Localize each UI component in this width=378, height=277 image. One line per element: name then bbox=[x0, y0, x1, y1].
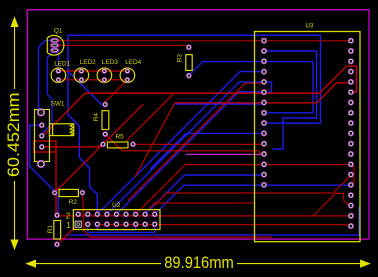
U2 pads bbox=[75, 212, 157, 228]
label R4 bbox=[93, 113, 100, 122]
IC U3 outline bbox=[255, 32, 361, 242]
wire: magenta overlapped pair horizontal bbox=[186, 153, 263, 155]
wire: red mid diagonal joining long red bbox=[127, 93, 175, 141]
wire: red from R2 right pad down through U2 along bottom bbox=[82, 193, 272, 237]
wire: red long to U3 pad19R bbox=[100, 225, 351, 227]
wire: red Q1 top pad to U3 pad1R bbox=[55, 40, 351, 42]
svg-text:SW1: SW1 bbox=[51, 100, 65, 107]
resistor R3 body bbox=[186, 55, 192, 71]
wire: red R4 bottom pad to U3 pad12L bbox=[105, 134, 264, 154]
svg-text:60.452mm: 60.452mm bbox=[5, 92, 23, 177]
svg-text:89.916mm: 89.916mm bbox=[164, 254, 234, 272]
svg-text:R3: R3 bbox=[177, 54, 184, 63]
wire: blue staple U2 col2 to col9 under connector bbox=[88, 224, 155, 232]
svg-text:LED1: LED1 bbox=[54, 60, 70, 67]
resistor R2 body bbox=[59, 189, 78, 196]
wire: blue staple U2 col3 to col7 under connector bbox=[97, 224, 135, 230]
wire: red U2 col7 to U3 pad13L bbox=[136, 165, 351, 215]
wire: blue bottom route right side bbox=[66, 207, 359, 235]
LED3 pads bbox=[102, 69, 107, 82]
LED4 pads bbox=[125, 69, 130, 82]
svg-text:U2: U2 bbox=[112, 202, 121, 209]
svg-text:LED4: LED4 bbox=[125, 59, 141, 66]
wire: red R5 right pad to U3 pad11L bbox=[133, 143, 264, 145]
wire: red LED bottom pads chain bbox=[58, 79, 127, 81]
wire: blue long diagonal U2 col3 to U3 pad4L bbox=[97, 72, 264, 215]
wire: red SW1 pad4 to R5 left pad bbox=[42, 144, 103, 147]
wire: red pair horizontal to U3 pad4R bbox=[174, 83, 351, 103]
label LED4 bbox=[125, 59, 141, 66]
wire: blue C3 loop pad3L to pad8L bbox=[264, 62, 313, 113]
connector U2 outline bbox=[73, 210, 160, 230]
wire: red LED top pads chain bbox=[58, 70, 127, 72]
svg-text:2: 2 bbox=[66, 212, 71, 221]
R3 pads bbox=[186, 45, 191, 78]
LED2 bbox=[74, 68, 89, 83]
R4 pads bbox=[103, 102, 108, 136]
label R3 bbox=[177, 54, 184, 63]
SW1 pads bbox=[37, 109, 44, 168]
R1 pads bbox=[55, 213, 60, 247]
wire: blue Q1 bottom pad down to SW1 pad3 bbox=[42, 50, 55, 136]
dimension 89.916mm horizontal line bbox=[27, 260, 370, 267]
wire: blue main vertical from (68,35) down to U2 col2 bbox=[68, 35, 97, 214]
board outline (magenta frame) bbox=[27, 10, 369, 239]
wire: blue branch to R4 top pad bbox=[68, 71, 105, 105]
label LED1 bbox=[54, 60, 70, 67]
pin label 2 bbox=[66, 212, 71, 221]
wire: blue R3 bottom pad to U3 pad3L bbox=[189, 62, 264, 76]
resistor R1 body bbox=[54, 221, 61, 240]
wire: red diagonal R1 bottom pad to U2 pin1 bbox=[57, 225, 78, 245]
Q1 pads bbox=[51, 38, 59, 52]
wire: blue of magenta pair into U3 pad7L bbox=[174, 103, 264, 105]
dimension text 60.452mm bbox=[5, 92, 23, 177]
svg-text:R5: R5 bbox=[116, 133, 125, 140]
svg-text:U3: U3 bbox=[305, 23, 314, 30]
label LED3 bbox=[102, 59, 118, 66]
wire: blue Q1 bottom pad to LED1 top pad bbox=[55, 50, 59, 71]
dimension 60.452mm vertical line bbox=[11, 18, 18, 249]
R5 pads bbox=[101, 142, 136, 147]
label R1 bbox=[47, 225, 54, 234]
wire: blue U2 col8 to U3 pad14L bbox=[145, 175, 264, 214]
wire: red steep diagonal center bbox=[135, 104, 175, 178]
wire: red long to right-side hook pads 13R and 15R bbox=[155, 165, 354, 205]
LED4 bbox=[120, 68, 135, 83]
svg-text:Q1: Q1 bbox=[54, 28, 63, 35]
wire: blue net from SW1 pad1 up to Q1 top pad bbox=[39, 41, 55, 113]
resistor R5 body bbox=[107, 142, 128, 148]
svg-text:R2: R2 bbox=[69, 199, 78, 206]
transistor Q1 bbox=[47, 35, 64, 55]
wire: red long diagonal to U3 pad5L bbox=[128, 83, 262, 200]
wire: blue SW1 pad2 left and down to R2 left pad bbox=[30, 125, 55, 192]
label U3 bbox=[305, 23, 314, 30]
wire: red long to U3 pad18R bbox=[57, 215, 351, 217]
svg-text:R4: R4 bbox=[93, 113, 100, 122]
wire: blue long diagonal U2 col4 to U3 pad5L bbox=[107, 82, 264, 214]
wire: red diagonal from bottom line to U3 pad17R bbox=[313, 193, 351, 216]
LED1 pads bbox=[56, 69, 61, 82]
label Q1 bbox=[54, 28, 63, 35]
label SW1 bbox=[51, 100, 65, 107]
R2 pads bbox=[52, 190, 85, 195]
wire: blue long diagonal U2 col5 to U3 pad6L bbox=[116, 92, 264, 215]
LED2 pads bbox=[79, 69, 84, 82]
pin label 1 bbox=[66, 221, 71, 230]
label LED2 bbox=[80, 59, 96, 66]
wire: red long from SW1 pad2 to U3 pad4R bbox=[42, 66, 357, 136]
svg-text:1: 1 bbox=[66, 221, 71, 230]
label U2 bbox=[112, 202, 121, 209]
U3 left pads bbox=[261, 38, 266, 187]
svg-text:LED2: LED2 bbox=[80, 59, 96, 66]
wire: red Q1 mid pad to R3 top pad bbox=[55, 45, 189, 47]
LED1 bbox=[51, 68, 66, 83]
label R2 bbox=[69, 199, 78, 206]
label R5 bbox=[116, 133, 125, 140]
switch SW1 outline bbox=[35, 110, 74, 162]
wire: red U2 col5 short horizontal bbox=[148, 203, 253, 210]
svg-text:R1: R1 bbox=[47, 225, 54, 234]
wire: blue U2 col9 through U3 pad15L to pad15R bbox=[155, 185, 351, 214]
wire: blue left stub of U3 pad10L bbox=[150, 133, 264, 169]
wire: red staircase left of SW1 down to R1 top pad bbox=[34, 141, 56, 215]
svg-text:LED3: LED3 bbox=[102, 59, 118, 66]
dimension text 89.916mm bbox=[164, 254, 234, 272]
resistor R4 body bbox=[102, 111, 109, 130]
U3 right pads bbox=[348, 38, 353, 229]
wire: blue C2 loop from U3 pad2L bbox=[264, 51, 317, 149]
LED3 bbox=[97, 68, 112, 83]
wire: blue stub R2 left pad down to R1 top pad bbox=[55, 193, 59, 216]
wire: red diagonal LED4 bottom to R4 top pad bbox=[105, 80, 127, 105]
wire: blue C1 loop top horizontal into U3 down to pad9L bbox=[68, 35, 321, 123]
wire: red long diagonal from R2 left pad bbox=[55, 104, 144, 193]
wire: blue mini loop pad5L to pad6L bbox=[264, 82, 272, 92]
